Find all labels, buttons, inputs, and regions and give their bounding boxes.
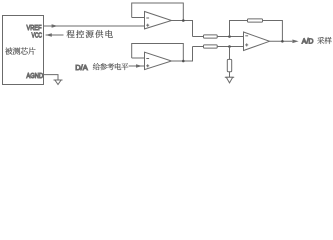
node U1 output junction bbox=[182, 19, 185, 22]
svg-text:VREF: VREF bbox=[27, 25, 42, 32]
label DUT chip 被测芯片 bbox=[5, 47, 36, 54]
wire D/A reference into U2 + input bbox=[129, 65, 145, 67]
op-amp U2 (D/A buffer) bbox=[145, 52, 172, 69]
label 采样 (sampling) bbox=[317, 37, 331, 44]
wire R1 row into U3 - input bbox=[193, 36, 244, 38]
ground below R4 bbox=[225, 77, 234, 83]
arrow D/A signal direction bbox=[136, 64, 142, 68]
wire U2 inverting input bbox=[132, 57, 145, 59]
wire U3 feedback bbox=[230, 21, 283, 42]
op-amp U3 (difference amplifier) bbox=[244, 32, 270, 51]
wire VCC supply bbox=[46, 34, 64, 36]
op-amp U1 (VREF buffer) bbox=[145, 12, 172, 29]
wire R4 to ground bbox=[229, 47, 231, 78]
arrow VCC into chip bbox=[46, 33, 52, 37]
ground AGND bbox=[54, 80, 63, 85]
resistor R2 bbox=[204, 45, 218, 48]
svg-text:D/A: D/A bbox=[75, 63, 88, 72]
wire AGND to ground bbox=[44, 75, 59, 80]
wire U1 feedback loop bbox=[132, 3, 184, 21]
wire U2 feedback loop bbox=[132, 44, 184, 62]
svg-text:VCC: VCC bbox=[32, 33, 43, 40]
node U3 inverting input junction bbox=[228, 35, 231, 38]
wire VREF from DUT to U1 + input bbox=[44, 25, 145, 27]
arrow VREF signal direction bbox=[52, 24, 58, 28]
wire U3 output bbox=[270, 40, 293, 42]
label 程控源供电 (programmable source supply) bbox=[67, 30, 113, 38]
wire U2 output bbox=[172, 47, 193, 62]
node U3 output junction bbox=[281, 40, 284, 43]
resistor R3 feedback bbox=[248, 19, 263, 22]
node U3 non-inverting input junction bbox=[228, 45, 231, 48]
arrow to A/D bbox=[292, 40, 298, 44]
resistor R4 (vertical) bbox=[227, 59, 231, 71]
DUT box bbox=[3, 16, 44, 85]
wire U1 output bbox=[172, 21, 193, 37]
wire R2 row into U3 + input bbox=[193, 46, 244, 48]
wire U1 inverting input bbox=[132, 17, 145, 19]
svg-text:AGND: AGND bbox=[26, 73, 43, 80]
resistor R1 bbox=[204, 35, 218, 38]
svg-text:A/D: A/D bbox=[302, 38, 314, 45]
node U2 output junction bbox=[182, 60, 185, 63]
label 给参考电平 (gives reference level) bbox=[93, 63, 128, 70]
